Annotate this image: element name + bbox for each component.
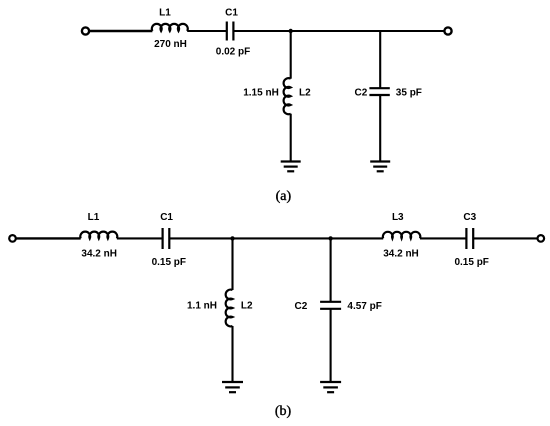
wire C2 to ground (b)	[330, 309, 332, 382]
terminal OUT (a)	[444, 27, 451, 34]
capacitor C1 (b)	[163, 228, 170, 249]
wire node1 to node2 (b)	[233, 237, 331, 239]
svg-text:C2: C2	[295, 301, 308, 312]
wire C1 to node1 (b)	[169, 237, 232, 239]
svg-text:34.2 nH: 34.2 nH	[383, 248, 419, 259]
wire input lead (a)	[90, 30, 153, 33]
inductor L2 (b)	[226, 290, 233, 327]
svg-text:4.57 pF: 4.57 pF	[347, 301, 381, 312]
svg-text:L3: L3	[392, 212, 404, 223]
svg-text:0.15 pF: 0.15 pF	[454, 257, 488, 268]
capacitor C3	[466, 228, 473, 249]
terminal IN (a)	[82, 27, 89, 34]
svg-text:C1: C1	[225, 8, 238, 19]
wire L2 to ground (a)	[290, 114, 292, 162]
svg-text:(a): (a)	[276, 189, 292, 204]
svg-text:1.15 nH: 1.15 nH	[243, 88, 279, 99]
svg-text:(b): (b)	[275, 404, 292, 419]
ground (b) at L2	[222, 382, 243, 392]
svg-text:L2: L2	[299, 88, 311, 99]
inductor L3	[383, 232, 420, 239]
wire node1 down to L2 (b)	[231, 238, 233, 290]
svg-text:1.1 nH: 1.1 nH	[187, 301, 217, 312]
wire L3 to C3 (b)	[420, 237, 466, 239]
svg-text:C1: C1	[160, 212, 173, 223]
wire node1 down to L2 (a)	[290, 31, 292, 79]
svg-text:0.15 pF: 0.15 pF	[152, 257, 186, 268]
wire node2 to L3 (b)	[331, 237, 384, 239]
capacitor C2 (b)	[320, 302, 341, 309]
wire C1 to node1 (a)	[233, 30, 290, 32]
node junction 2 (b)	[328, 236, 332, 240]
wire node2 down to C2 (b)	[330, 238, 332, 301]
svg-text:270 nH: 270 nH	[154, 39, 187, 50]
ground (a) at L2	[281, 162, 301, 172]
svg-text:C3: C3	[463, 212, 476, 223]
svg-text:C2: C2	[355, 88, 368, 99]
wire L1 to C1 (a)	[187, 30, 227, 32]
svg-text:0.02 pF: 0.02 pF	[216, 47, 250, 58]
svg-text:35 pF: 35 pF	[396, 88, 422, 99]
wire node1 to output (a)	[291, 30, 444, 32]
wire L1 to C1 (b)	[117, 237, 163, 239]
wire C2 to ground (a)	[379, 95, 381, 162]
inductor L1	[152, 24, 188, 31]
wire input lead (b)	[16, 237, 80, 239]
capacitor C2	[369, 88, 389, 95]
ground (a) at C2	[370, 162, 390, 172]
svg-text:L1: L1	[159, 8, 171, 19]
wire T down to C2 (a)	[379, 31, 381, 88]
node junction 1 (b)	[230, 236, 234, 240]
capacitor C1	[227, 22, 234, 41]
svg-text:34.2 nH: 34.2 nH	[81, 248, 117, 259]
inductor L1 (b)	[80, 232, 117, 239]
svg-text:L2: L2	[241, 301, 253, 312]
inductor L2	[284, 78, 291, 114]
wire C3 to output (b)	[473, 237, 537, 239]
wire L2 to ground (b)	[231, 326, 233, 382]
node junction (a)	[289, 29, 293, 33]
ground (b) at C2	[320, 382, 341, 392]
terminal IN (b)	[9, 235, 16, 242]
terminal OUT (b)	[538, 235, 545, 242]
svg-text:L1: L1	[88, 212, 100, 223]
